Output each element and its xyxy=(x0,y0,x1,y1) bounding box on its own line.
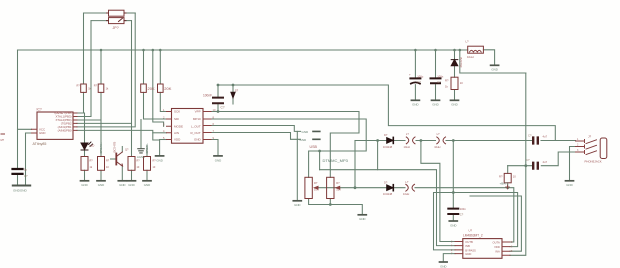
svg-text:GND: GND xyxy=(566,183,572,187)
svg-text:100nF: 100nF xyxy=(203,93,212,97)
wire JP1 pad1 left xyxy=(84,12,109,14)
resistor lower x101 xyxy=(98,157,105,171)
svg-text:R?: R? xyxy=(137,160,141,163)
wire column x152.8 rail down to IC2 pin3 xyxy=(153,50,164,126)
wire column x131.5 down to lower resistor and ground xyxy=(131,123,133,180)
phone jack pins xyxy=(576,140,585,154)
wire bus y169.7 to IC3 pin2 xyxy=(320,170,455,246)
svg-text:GND: GND xyxy=(302,130,310,134)
R5 wire arrow xyxy=(314,186,318,189)
wire junction x421.3 route to IC3 pin1 xyxy=(421,141,455,242)
wire column x83.5 JP to R2 to IC1 pin1 xyxy=(77,13,84,113)
svg-text:R?: R? xyxy=(336,181,340,185)
ground texts row under left columns xyxy=(81,68,572,268)
svg-text:R_OUT: R_OUT xyxy=(191,131,201,135)
ground R8 column xyxy=(451,99,459,101)
svg-text:GND: GND xyxy=(215,158,221,162)
ground L1 output flag xyxy=(491,64,499,66)
jack pin marks xyxy=(577,138,579,152)
USB flag bars xyxy=(313,131,320,139)
svg-text:10uH: 10uH xyxy=(467,55,474,59)
resistor lower x131.5 xyxy=(128,157,135,171)
IC1 pin names xyxy=(54,111,71,132)
capacitor C1 plates xyxy=(13,169,23,174)
svg-text:R?: R? xyxy=(106,160,110,163)
wire C7 row y165.7 to jack xyxy=(508,152,576,166)
svg-text:+: + xyxy=(409,73,411,77)
svg-text:INA: INA xyxy=(495,250,500,254)
wire rail left drop to IC1 VCC xyxy=(18,50,32,129)
IC2 pin numbers xyxy=(163,108,216,140)
svg-text:SCK: SCK xyxy=(174,110,180,114)
IC2 pin names left xyxy=(174,110,183,142)
svg-text:OUTB: OUTB xyxy=(465,240,473,244)
resistor R8 xyxy=(451,77,458,89)
svg-text:GND: GND xyxy=(440,264,446,268)
svg-text:MODE: MODE xyxy=(174,125,183,129)
svg-text:MP10: MP10 xyxy=(193,117,201,121)
wire IC2 pin4L to column xyxy=(153,132,167,134)
svg-text:100n: 100n xyxy=(437,74,443,78)
svg-text:L_OUT: L_OUT xyxy=(191,125,201,129)
wire bus y192.5 between IC3 pins xyxy=(434,193,518,250)
wire audio row2 bus y187.7 xyxy=(318,188,514,242)
diode D5 row2 xyxy=(387,185,393,191)
transistor Q1 BC547 xyxy=(115,154,117,165)
jumper JP1 pin marks xyxy=(107,13,127,22)
svg-text:M?: M? xyxy=(1,138,5,142)
svg-text:SDI: SDI xyxy=(174,117,179,121)
svg-text:GND: GND xyxy=(412,103,418,107)
inductor L1 box xyxy=(468,46,484,53)
ground under C1 pair xyxy=(13,185,30,187)
wire test point stem x233 xyxy=(232,85,234,104)
wire R7 column stubs xyxy=(507,166,509,188)
ground IC3 pin xyxy=(440,261,448,263)
svg-text:GND: GND xyxy=(194,138,202,142)
IC2 right pin stubs xyxy=(203,112,211,140)
wire riser x319.6 to lower bus xyxy=(319,151,321,170)
svg-text:D?: D? xyxy=(384,180,388,184)
svg-text:1N4148: 1N4148 xyxy=(383,145,393,149)
svg-text:BYPASS: BYPASS xyxy=(465,248,476,252)
wire transistor collector stub xyxy=(121,147,123,153)
ground under IC2 pin5 xyxy=(214,155,222,157)
wire riser x377.6 joining audio row 1 xyxy=(377,141,379,170)
svg-text:10uH: 10uH xyxy=(434,145,440,149)
svg-text:GND: GND xyxy=(465,252,471,256)
wire riser x355 joining rows xyxy=(354,141,356,188)
wire IC1 GND pin to ground xyxy=(26,133,32,185)
wire IC2 pin2R staircase to R5 xyxy=(211,119,366,177)
svg-text:R?: R? xyxy=(499,175,503,179)
svg-text:C?: C? xyxy=(460,213,464,217)
wire audio row1 bus y140.5 xyxy=(355,140,576,142)
svg-text:C?: C? xyxy=(526,158,530,162)
wire IC3 GND pin to ground xyxy=(443,254,455,262)
svg-text:PHONEJACK: PHONEJACK xyxy=(585,159,602,163)
wire column x101 down to lower resistor and ground xyxy=(100,120,102,181)
capacitor C10 bottom plates xyxy=(533,163,538,169)
svg-text:4u7: 4u7 xyxy=(543,160,548,164)
wire column x131.5 JP to IC1 pin4 xyxy=(77,21,132,124)
wire column x101 rail to R3 to IC1 pin3 xyxy=(77,50,101,120)
svg-text:1k: 1k xyxy=(106,88,109,91)
IC1 right pin stubs xyxy=(73,113,77,130)
svg-text:GND: GND xyxy=(144,183,150,187)
supply plus mark xyxy=(506,185,510,189)
svg-text:L?: L? xyxy=(466,39,470,43)
svg-text:BC547B: BC547B xyxy=(113,142,117,153)
wire IC2 pin5R to ground xyxy=(211,140,218,156)
svg-text:VDD: VDD xyxy=(174,138,181,142)
wire C5 column x415.4 xyxy=(414,50,416,100)
resistor lower x147 xyxy=(144,157,151,171)
wire IC2 pin4R to USB flag row2 xyxy=(211,133,301,140)
ground C6 column xyxy=(432,99,440,101)
wire C6 column x435.5 xyxy=(435,50,437,100)
svg-text:R?: R? xyxy=(77,85,81,88)
wire IC2 pin3R to USB flag row1 xyxy=(211,126,301,132)
wire L1 output to ground flag xyxy=(483,50,494,65)
capacitor C9 top plates xyxy=(533,138,538,144)
IC1 left pin stubs xyxy=(32,129,38,133)
svg-text:10K: 10K xyxy=(314,188,319,192)
svg-text:GND: GND xyxy=(39,131,45,135)
svg-text:GND: GND xyxy=(491,68,497,72)
svg-text:10K: 10K xyxy=(336,188,341,192)
svg-text:(AIN0)PB0: (AIN0)PB0 xyxy=(58,129,72,133)
ground C5 column xyxy=(411,99,419,101)
wire LED column x84.5 xyxy=(84,113,86,181)
resistor R2 20K-class pullup x83.5 xyxy=(81,84,87,92)
svg-text:GND: GND xyxy=(119,183,125,187)
phone jack body xyxy=(600,138,607,159)
svg-text:10: 10 xyxy=(137,166,140,169)
svg-text:GNDGND: GNDGND xyxy=(13,189,28,193)
svg-text:GND: GND xyxy=(451,103,457,107)
resistor R7 xyxy=(504,173,511,182)
ground LED column xyxy=(81,180,89,182)
IC3 pin names left xyxy=(465,240,476,256)
svg-text:IC?: IC? xyxy=(37,108,42,112)
ground transistor xyxy=(118,180,126,182)
jumper JP1 pad A xyxy=(109,10,125,16)
wire transistor base stub xyxy=(111,158,117,160)
capacitor C8 plates xyxy=(448,209,458,214)
svg-text:R?: R? xyxy=(445,79,449,83)
small resistor value marks left cluster xyxy=(77,85,157,170)
ground slant symbol x141 xyxy=(138,149,144,153)
svg-text:LED: LED xyxy=(90,145,95,148)
svg-text:INB: INB xyxy=(465,244,470,248)
wire C1 decoupling column xyxy=(17,129,19,185)
IC3 left pin stubs xyxy=(455,242,463,254)
wire D3 R8 column x454.5 xyxy=(454,50,456,100)
ground x131.5 column xyxy=(128,180,136,182)
resistor R4 20K x143.5 xyxy=(141,84,147,92)
svg-text:BZX79C: BZX79C xyxy=(459,58,463,68)
svg-text:R?: R? xyxy=(314,181,318,185)
IC3 pin names right xyxy=(493,241,500,254)
wire USB ground column x297.3 xyxy=(296,131,298,200)
IC3 pin number marks xyxy=(451,241,513,256)
ground x362 column xyxy=(358,214,366,216)
wire column x91 JP to IC1 pin2 xyxy=(77,21,91,117)
IC1 left pin names xyxy=(39,128,45,136)
svg-text:AIN: AIN xyxy=(174,131,179,135)
IC2 codec box xyxy=(172,109,204,144)
wire JP1 pad1 right xyxy=(124,12,135,14)
wire IC2 pin5L to ground column xyxy=(160,139,167,141)
svg-text:ATtiny85: ATtiny85 xyxy=(33,142,47,146)
svg-text:GND: GND xyxy=(98,183,104,187)
ground jack pin2 xyxy=(566,180,574,182)
svg-text:SPEAK+: SPEAK+ xyxy=(99,142,103,154)
svg-text:10: 10 xyxy=(513,175,516,179)
ferrite L4 row2 xyxy=(406,184,415,191)
svg-text:GND: GND xyxy=(81,183,87,187)
capacitor C4 plates xyxy=(213,98,223,104)
svg-text:R?: R? xyxy=(90,160,94,163)
wire top right bend y73 xyxy=(460,50,526,73)
wire JP1 pad2 right xyxy=(124,20,132,22)
svg-text:100n: 100n xyxy=(460,207,466,211)
svg-text:GND: GND xyxy=(432,103,438,107)
svg-text:10: 10 xyxy=(460,81,463,85)
wire bus y196 to IC3 pin3R xyxy=(470,196,521,251)
wire column x143.5 rail to 20K to IC2 pin2 xyxy=(144,50,167,119)
phone jack switch contacts xyxy=(586,140,597,155)
wire R5 R6 bottoms to ground xyxy=(309,199,363,215)
svg-text:GND: GND xyxy=(156,158,162,162)
IC1 ATtiny box xyxy=(37,112,73,139)
ground near IC2 left xyxy=(156,155,164,157)
wire IC1 pin6 run to x141 and x152.8 xyxy=(77,120,160,156)
wire main VCC rail xyxy=(18,49,468,51)
ferrite L3 row1 xyxy=(437,137,446,144)
resistor R6 lower right xyxy=(327,177,334,198)
svg-text:VDD: VDD xyxy=(494,245,500,249)
svg-text:10: 10 xyxy=(106,166,109,169)
svg-text:GND: GND xyxy=(359,217,365,221)
left edge pin mark xyxy=(1,133,5,135)
IC3 right pin stubs xyxy=(502,242,510,255)
capacitor C6 plates xyxy=(431,78,441,83)
svg-text:AGND: AGND xyxy=(137,155,145,159)
wire C4 column x218 xyxy=(217,85,219,112)
svg-text:10: 10 xyxy=(153,166,156,169)
svg-text:LM4863MT_2: LM4863MT_2 xyxy=(463,233,483,237)
ground x101 column xyxy=(97,180,105,182)
svg-text:10uH: 10uH xyxy=(404,145,410,149)
svg-text:L?: L? xyxy=(405,180,408,184)
wire column x160.3 rail to 20K to IC2 pin1 xyxy=(160,50,166,112)
diode D4 row1 xyxy=(387,138,393,144)
svg-text:S?: S? xyxy=(235,88,239,92)
svg-text:GND: GND xyxy=(128,183,134,187)
capacitor C5 polarized plates xyxy=(410,77,420,79)
svg-text:U?: U? xyxy=(469,229,473,233)
resistor R5 20K x160.3 xyxy=(158,84,164,92)
wire column x147 net stub to resistor to ground xyxy=(146,146,148,181)
svg-text:1N4148: 1N4148 xyxy=(383,192,393,196)
svg-text:1u: 1u xyxy=(24,167,27,171)
R6 wire arrow xyxy=(336,186,340,189)
svg-text:J?: J? xyxy=(588,135,592,139)
svg-text:10uH: 10uH xyxy=(403,192,409,196)
IC3 amplifier box xyxy=(463,239,502,259)
wire C8 riser and ground xyxy=(452,141,454,221)
svg-text:VPP: VPP xyxy=(195,110,201,114)
ground USB column xyxy=(293,200,301,202)
svg-text:C?: C? xyxy=(24,174,28,178)
resistor R5 lower left xyxy=(305,177,312,198)
svg-text:L?: L? xyxy=(437,132,440,136)
test point arrow xyxy=(231,92,235,98)
wire column x525.8 from top net xyxy=(510,73,526,255)
IC2 pin names right xyxy=(191,110,202,142)
LED D1 xyxy=(81,143,88,150)
svg-text:20K: 20K xyxy=(148,86,155,91)
svg-text:GND: GND xyxy=(450,223,456,227)
svg-text:C?: C? xyxy=(417,80,421,84)
svg-text:1k: 1k xyxy=(90,166,93,169)
ground x147 column xyxy=(143,180,151,182)
wire column x135.2 JP to IC1 pin5 xyxy=(77,13,135,127)
ground C8 column xyxy=(449,220,457,222)
jumper JP1 pad B xyxy=(109,18,125,24)
svg-text:GND: GND xyxy=(300,138,308,142)
svg-text:Q?: Q? xyxy=(125,149,129,152)
wire JP1 pad2 left xyxy=(91,20,109,22)
svg-text:L?: L? xyxy=(406,132,409,136)
resistor R3 pullup x101 xyxy=(98,84,104,92)
svg-text:20K: 20K xyxy=(164,86,171,91)
svg-text:DTMMC_MP3: DTMMC_MP3 xyxy=(323,158,349,163)
zener D3 xyxy=(451,60,458,66)
svg-text:GND: GND xyxy=(294,203,300,207)
ferrite L2 row1 xyxy=(406,137,415,144)
svg-text:C?: C? xyxy=(528,134,532,138)
svg-text:1k: 1k xyxy=(445,85,448,89)
svg-text:USB: USB xyxy=(310,145,318,149)
wire jack pin2 to ground xyxy=(570,147,576,181)
svg-text:D?: D? xyxy=(384,133,388,137)
wire transistor emitter to ground xyxy=(121,166,123,181)
wire IC2 pin1R staircase to R6 xyxy=(211,112,359,178)
svg-text:100u: 100u xyxy=(417,74,423,78)
svg-text:C?: C? xyxy=(221,106,225,110)
IC2 left pin stubs xyxy=(167,112,172,140)
svg-text:OUTA: OUTA xyxy=(493,241,500,245)
svg-text:JP?: JP? xyxy=(113,26,119,30)
svg-text:R?: R? xyxy=(94,85,98,88)
resistor below LED xyxy=(81,157,88,171)
wire net y85 long run to right side xyxy=(218,85,555,141)
svg-text:C?: C? xyxy=(437,80,441,84)
svg-text:+BATT: +BATT xyxy=(500,181,509,185)
svg-text:4u7: 4u7 xyxy=(543,135,548,139)
svg-text:3: 3 xyxy=(163,123,165,127)
svg-text:SPEAK-: SPEAK- xyxy=(145,143,149,154)
